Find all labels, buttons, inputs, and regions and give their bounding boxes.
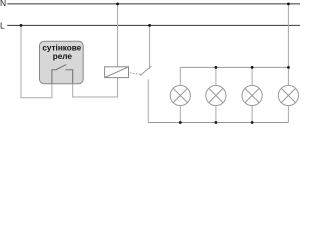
svg-text:L: L xyxy=(0,21,5,31)
wire L to relay box input xyxy=(21,25,52,97)
junction dot on L at box drop xyxy=(20,24,23,27)
svg-text:N: N xyxy=(0,0,6,8)
top bus from N xyxy=(180,66,288,68)
junction dot bottom bus lamp 2 xyxy=(215,121,218,124)
junction dot top bus lamp 2 xyxy=(215,66,218,69)
relay contact blade xyxy=(140,66,152,75)
wire N drop to lamp 4 xyxy=(287,4,289,86)
junction dot on N at coil drop xyxy=(116,3,119,6)
junction dot bottom bus lamp 1 xyxy=(179,121,182,124)
bottom bus xyxy=(148,122,288,124)
wire N line xyxy=(7,3,300,5)
svg-text:реле: реле xyxy=(53,52,73,61)
wire L to contact fixed terminal xyxy=(149,25,151,68)
dashed mechanical link xyxy=(130,73,142,75)
wire L line xyxy=(7,24,300,26)
wire N to coil top xyxy=(117,4,119,67)
lamp 4 xyxy=(278,85,298,105)
junction dot top bus lamp 3 xyxy=(251,66,254,69)
lamp 1 xyxy=(170,85,190,105)
lamp 4 bottom wire xyxy=(287,106,289,123)
lamp 2 xyxy=(206,85,226,105)
junction dot on L at contact drop xyxy=(148,24,151,27)
junction dot bottom bus lamp 3 xyxy=(251,121,254,124)
lamp 2 wires xyxy=(215,67,217,85)
internal switch contact of relay box xyxy=(52,70,56,84)
lamp 3 xyxy=(242,85,262,105)
junction dot on N at lamp drop xyxy=(287,3,290,6)
lamp 1 wires xyxy=(179,67,181,85)
relay coil xyxy=(105,67,129,78)
wire contact to bottom bus xyxy=(147,79,149,122)
twilight relay box xyxy=(40,41,84,83)
wire relay box output to coil xyxy=(73,78,118,97)
junction dot top bus lamp 4 / N drop xyxy=(287,66,290,69)
lamp 3 wires xyxy=(251,67,253,85)
